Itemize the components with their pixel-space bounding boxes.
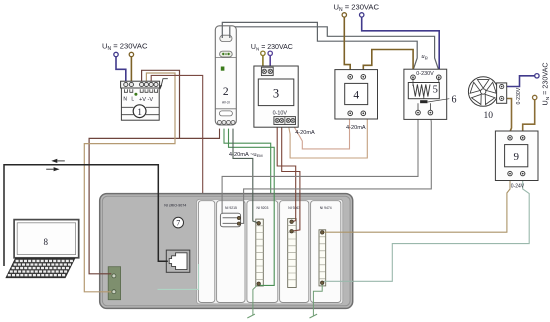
- svg-text:9: 9: [513, 151, 519, 163]
- svg-text:+V -V: +V -V: [139, 97, 153, 103]
- component number 1 circled: [133, 105, 146, 118]
- wire dark green overlay into NI9203 top terminal: [253, 193, 259, 224]
- svg-text:4-20mA: 4-20mA: [346, 125, 366, 131]
- svg-text:4-20mA ~uEM: 4-20mA ~uEM: [229, 152, 263, 158]
- wire maroon overlay to terminal block: [99, 273, 111, 275]
- svg-text:1: 1: [137, 108, 142, 118]
- ground symbol left: [247, 314, 255, 318]
- module NI 9215 body: [217, 201, 245, 303]
- empty slot: [198, 201, 214, 303]
- svg-text:10: 10: [484, 111, 494, 121]
- wire black laptop ethernet to cRIO: [4, 165, 168, 266]
- wire teal amplifier 9 to module NI9474 bottom: [322, 176, 529, 283]
- power supply 1 lower lines: [121, 107, 159, 114]
- wire tan T1 converter 3 to converter 4 (4-20mA): [288, 115, 367, 158]
- wire P3 maroon PSU output down to chassis top: [151, 75, 203, 193]
- terminal circle blue N left: [114, 52, 118, 56]
- converter 3 box: [254, 66, 298, 127]
- power supply 1 LED: [134, 93, 137, 96]
- svg-text:N L: N L: [123, 97, 135, 103]
- wire tan overlay into NI9474 top terminal: [324, 231, 353, 233]
- svg-text:AV-3I: AV-3I: [222, 101, 230, 105]
- svg-text:0-230V: 0-230V: [416, 71, 434, 77]
- wire brick M1 converter 3 to module NI9263: [277, 125, 296, 222]
- adjustment arrow on power supply: [159, 79, 168, 90]
- svg-text:NI 9203: NI 9203: [256, 206, 268, 210]
- svg-text:NI 9215: NI 9215: [225, 206, 237, 210]
- svg-text:0-230V: 0-230V: [516, 87, 522, 104]
- wire blue mains N to power supply 1: [116, 57, 126, 82]
- heater 5 box: [404, 69, 447, 119]
- wire brick M2 converter 3 to module NI9263: [282, 125, 300, 232]
- svg-text:8: 8: [44, 237, 49, 247]
- terminal circle blue top: [360, 13, 364, 17]
- svg-text:NI 9474: NI 9474: [320, 206, 332, 210]
- svg-text:7: 7: [176, 219, 180, 228]
- wire tan T2 converter 3 to converter 4 (4-20mA): [293, 115, 350, 148]
- module NI9263 terminal strip: [288, 219, 297, 288]
- wire Rw supply stub to converter 2 bottom terminal: [219, 129, 221, 139]
- wire tan overlay to terminal block: [99, 291, 111, 293]
- wire green G2 from converter 2 to module NI9203 bottom terminal: [229, 129, 275, 286]
- laptop 8: [6, 220, 79, 278]
- converter 4 box: [335, 70, 378, 119]
- svg-text:0-24V: 0-24V: [511, 183, 525, 189]
- terminal circle olive converter 3: [261, 51, 265, 55]
- terminal circle brown fan mains: [533, 95, 537, 99]
- module NI9203 terminal strip: [256, 219, 263, 286]
- wire black ethernet overlay: [158, 193, 168, 261]
- svg-text:UN = 230VAC: UN = 230VAC: [251, 44, 293, 51]
- wire brick overlay into NI9263 terminal 1: [292, 193, 296, 222]
- wire green G1 from converter 2 to chassis: [224, 129, 271, 197]
- module NI 9263 body: [280, 201, 309, 303]
- svg-text:5: 5: [433, 85, 438, 96]
- svg-text:UN = 230VAC: UN = 230VAC: [102, 42, 148, 53]
- svg-text:UN = 230VAC: UN = 230VAC: [334, 3, 380, 14]
- wire gray uB B from converter 2 top to heater 5 right terminal: [230, 27, 439, 75]
- wire brick overlay into NI9263 terminal 2: [292, 193, 300, 231]
- cRIO chassis: [100, 194, 353, 309]
- wire cyan artifact overlay: [158, 264, 199, 289]
- wire stubs converter 2 top: [222, 26, 230, 39]
- terminal circle brown top: [342, 13, 346, 17]
- wire gray uB A from converter 2 top to heater 5 left terminal: [222, 22, 417, 75]
- pointer line to label 6: [428, 99, 450, 102]
- module NI9474 terminal strip: [319, 230, 326, 286]
- wire brown fan to amplifier 9: [503, 99, 511, 136]
- svg-text:UN = 230VAC: UN = 230VAC: [540, 62, 550, 105]
- wire blue mains top to heater 5: [362, 17, 440, 75]
- controller number 7 circled: [173, 217, 184, 228]
- svg-text:4-20mA: 4-20mA: [295, 130, 315, 136]
- svg-text:NI cRIO-9074: NI cRIO-9074: [164, 203, 186, 207]
- wire green overlay into NI9203 bottom terminal: [259, 193, 275, 286]
- converter 3 bottom terminal strip: [274, 117, 296, 125]
- svg-text:0-10V: 0-10V: [273, 111, 288, 117]
- laptop keys: [8, 260, 73, 277]
- amplifier 9 box: [495, 131, 538, 181]
- power supply 1 terminal feet: [124, 89, 157, 92]
- wire blue fan to mains terminal: [503, 76, 534, 87]
- module bay background: [197, 199, 343, 304]
- module NI 9203 body: [247, 201, 278, 303]
- module NI 9474 body: [311, 201, 341, 303]
- wire P1 maroon PSU +V loop to chassis terminal: [89, 70, 219, 273]
- wire green module NI9203 to ground: [253, 284, 259, 316]
- wire gray heater 5 right to module NI9215 connector: [240, 115, 431, 224]
- terminal circle purple converter 3: [268, 51, 272, 55]
- svg-text:3: 3: [273, 86, 279, 100]
- svg-text:uB: uB: [421, 53, 427, 60]
- arrow left on ethernet link: [51, 159, 57, 163]
- wire dark G3 from converter 2 to module NI9203 top terminal: [233, 129, 259, 224]
- svg-text:2: 2: [223, 86, 229, 98]
- power terminal block on cRIO: [108, 267, 120, 300]
- wire brown converter 4 to heater 5: [363, 50, 413, 75]
- wire purple mains to converter 3: [269, 55, 271, 67]
- ground symbol right: [310, 314, 318, 318]
- svg-text:NI 9263: NI 9263: [288, 206, 300, 210]
- wire teal overlay into NI9474 bottom terminal: [322, 281, 353, 283]
- RJ45 port on cRIO: [166, 250, 190, 272]
- svg-text:6: 6: [452, 95, 457, 106]
- svg-text:4: 4: [353, 90, 359, 102]
- wire gray heater 5 left to module NI9215 connector: [222, 115, 418, 214]
- wire brown mains top to converter 4: [344, 17, 350, 75]
- power supply 1 body: [121, 81, 160, 120]
- terminal circle brown L left: [129, 52, 133, 56]
- power supply 1 terminals: [124, 82, 158, 86]
- wire olive mains to converter 3: [262, 55, 264, 67]
- arrow right on ethernet link: [54, 167, 60, 171]
- wire cyan artifact near RJ45: [158, 264, 199, 289]
- wire brown mains L to power supply 1: [130, 57, 132, 82]
- wire P2 tan PSU -V loop to chassis terminal: [84, 73, 175, 292]
- wire green module NI9474 to ground: [313, 285, 322, 316]
- module NI9215 connector: [220, 213, 240, 227]
- wire tan amplifier 9 to module NI9474 top: [324, 176, 510, 232]
- converter 2 DIN module: [215, 26, 236, 125]
- wire gray overlay into NI9215 connector pin 1: [221, 193, 223, 214]
- terminal circle blue fan mains: [535, 74, 539, 78]
- wire brown mains terminal to amplifier 9: [523, 100, 535, 136]
- module terminal dots redraw: [237, 216, 240, 219]
- wire gray overlay into NI9215 connector pin 2: [240, 193, 244, 224]
- fan 10: [468, 77, 506, 107]
